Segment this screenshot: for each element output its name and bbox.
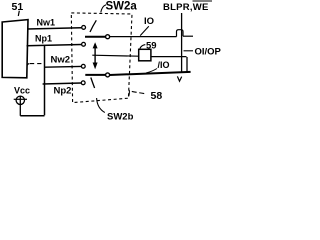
svg-text:Np1: Np1 (35, 34, 52, 44)
svg-text:Np2: Np2 (54, 85, 72, 96)
svg-text:Nw1: Nw1 (37, 18, 56, 28)
svg-text:BLPR,WE: BLPR,WE (163, 2, 209, 13)
svg-text:58: 58 (151, 90, 163, 102)
svg-text:OI/OP: OI/OP (195, 47, 222, 58)
svg-text:51: 51 (12, 1, 24, 13)
svg-text:/IO: /IO (158, 60, 170, 70)
svg-text:Vcc: Vcc (14, 86, 30, 96)
svg-text:59: 59 (146, 40, 157, 51)
svg-text:SW2b: SW2b (107, 111, 134, 120)
svg-text:Nw2: Nw2 (51, 54, 71, 65)
svg-text:SW2a: SW2a (106, 1, 138, 13)
svg-text:IO: IO (144, 16, 154, 27)
